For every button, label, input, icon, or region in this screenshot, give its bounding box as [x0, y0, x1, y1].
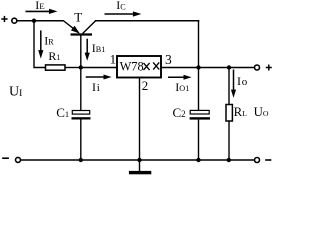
svg-text:2: 2 [142, 78, 149, 93]
resistor R1 [46, 65, 66, 70]
node RL-output junction [227, 65, 231, 69]
current arrow Ii [86, 75, 112, 80]
wire top rail from + terminal to emitter [17, 20, 63, 22]
node C1 bottom junction [79, 158, 83, 162]
label + (output) [266, 65, 272, 71]
svg-text:Ii: Ii [92, 80, 100, 94]
wire C1 to bottom rail [80, 120, 82, 161]
svg-text:Io: Io [237, 74, 248, 88]
svg-text:T: T [74, 10, 82, 25]
capacitor C1 [72, 111, 91, 120]
wire right vertical collector drop [198, 20, 200, 67]
node R1-base-pin1 junction [79, 65, 83, 69]
wire RL to bottom rail [228, 121, 230, 160]
label W78xx [120, 60, 160, 74]
wire node to pin 1 of regulator [81, 67, 117, 69]
wire C2 branch [198, 68, 200, 111]
output + terminal [255, 65, 260, 70]
node pin2 ground junction [137, 158, 141, 162]
wire top rail collector to right corner [95, 20, 199, 22]
wire pin 3 to output terminal [161, 67, 254, 69]
node RL bottom junction [227, 158, 231, 162]
wire pin 2 down [139, 78, 141, 161]
node C2 bottom junction [196, 158, 200, 162]
ground [129, 160, 151, 174]
svg-text:3: 3 [165, 52, 172, 67]
current arrow IE [26, 9, 58, 14]
svg-text:W78: W78 [120, 60, 144, 74]
input - terminal [16, 157, 21, 162]
node junction top-left [32, 19, 36, 23]
current arrow IO1 [168, 75, 192, 80]
transistor T [64, 21, 96, 35]
current arrow IR [38, 30, 43, 58]
label + (input) [1, 16, 7, 22]
wire C1 branch [80, 68, 82, 111]
svg-text:IC: IC [116, 0, 126, 12]
capacitor C2 [190, 110, 210, 119]
current arrow IB1 [85, 39, 90, 61]
output - terminal [255, 158, 260, 163]
wire C2 to bottom rail [198, 120, 200, 160]
resistor RL [226, 105, 232, 122]
label - (output) [265, 159, 271, 161]
wire RL branch [228, 68, 230, 105]
wire bottom rail [21, 159, 254, 161]
transistor base wire [80, 35, 82, 68]
wire left vertical to R1 [34, 21, 46, 68]
input + terminal [12, 18, 17, 23]
op-amp U1 regulator W78xx box [117, 56, 161, 78]
current arrow IC [105, 11, 142, 16]
svg-text:1: 1 [110, 52, 117, 67]
wire R1 to node [65, 67, 81, 69]
node collector-output junction [196, 65, 200, 69]
svg-text:IE: IE [35, 0, 44, 12]
current arrow IO [231, 70, 236, 98]
label - (input) [2, 157, 9, 159]
